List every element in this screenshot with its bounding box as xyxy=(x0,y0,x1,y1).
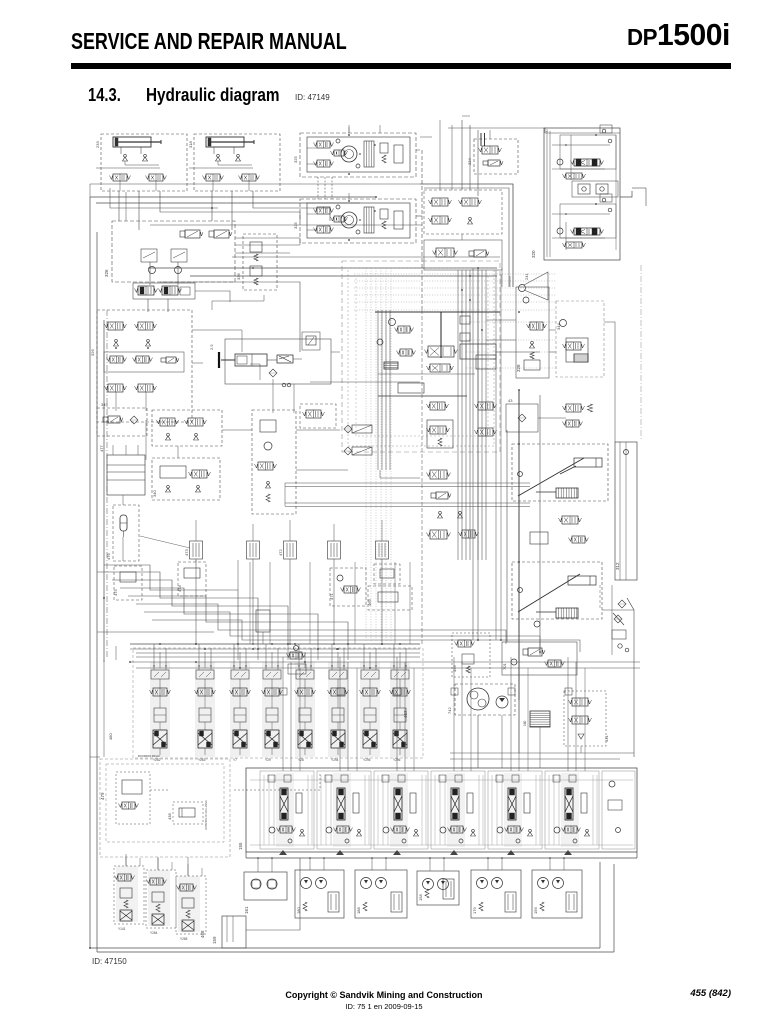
svg-text:479: 479 xyxy=(100,792,105,800)
svg-text:241: 241 xyxy=(524,273,529,280)
svg-text:43: 43 xyxy=(508,398,513,403)
wire junction solid rails xyxy=(377,310,379,470)
water coupling 469 xyxy=(368,586,412,610)
wire long center verticals xyxy=(299,330,301,352)
svg-text:349: 349 xyxy=(101,402,108,407)
manifold module x431 xyxy=(431,771,485,849)
jack valves 468 xyxy=(116,866,138,922)
small hatched cylinders 347 xyxy=(352,425,372,433)
wire extra vertical drops to bus xyxy=(249,562,251,644)
wire heavy L-routes into column xyxy=(420,184,513,287)
rock drill box 1 (dashed) xyxy=(512,444,608,501)
svg-text:Y295: Y295 xyxy=(363,758,371,762)
cartridge valve Y262 xyxy=(150,662,170,757)
relief valves 336 xyxy=(243,234,277,290)
percussion relief valves top xyxy=(566,404,581,412)
gauge box 161 xyxy=(244,872,287,900)
valve block 326 (oscillation) xyxy=(112,221,235,282)
svg-text:336: 336 xyxy=(236,273,241,280)
wire bus horizontals xyxy=(130,643,420,645)
wire 320 outlet arrow xyxy=(620,191,632,197)
gauge block 471 xyxy=(330,568,366,606)
wire right return risers xyxy=(599,862,601,948)
pump box 188 xyxy=(355,870,407,918)
water pump module 340 xyxy=(152,458,220,500)
Y7 extra cluster xyxy=(294,646,299,651)
svg-text:Y294: Y294 xyxy=(331,758,339,762)
wire percussion links xyxy=(538,417,566,419)
cartridge valve Y294 xyxy=(328,662,348,757)
svg-text:325: 325 xyxy=(293,156,298,163)
option box 480/479 (front jack) xyxy=(100,759,230,857)
main control valve 346 xyxy=(428,346,454,357)
svg-text:161: 161 xyxy=(244,906,249,914)
cartridge valve Y263 xyxy=(195,662,215,757)
valve block 320 (rod handling) xyxy=(544,128,620,260)
wire tramming brake lines xyxy=(317,177,319,199)
wire 326 exits xyxy=(195,291,230,302)
svg-text:155: 155 xyxy=(238,842,243,850)
dotted rails to 344 zone xyxy=(466,321,556,323)
svg-text:188: 188 xyxy=(356,907,361,914)
wire tank 159 link xyxy=(246,858,300,930)
svg-text:Y29: Y29 xyxy=(265,758,271,762)
section heading xyxy=(88,85,121,106)
svg-text:318: 318 xyxy=(188,141,193,148)
svg-text:Y7: Y7 xyxy=(233,758,237,762)
manifold module x545 xyxy=(545,771,599,849)
manifold module x374 xyxy=(374,771,428,849)
svg-text:Y141: Y141 xyxy=(118,927,126,931)
svg-text:179: 179 xyxy=(472,907,477,914)
manifold module x488 xyxy=(488,771,542,849)
svg-text:742: 742 xyxy=(447,707,452,714)
footer copyright xyxy=(0,990,768,1000)
svg-text:468: 468 xyxy=(200,930,205,938)
wire lower-left links xyxy=(103,660,105,757)
pump box 158 xyxy=(417,871,459,905)
wire bottom tank return lines xyxy=(90,947,600,949)
wire right bundle to 651 xyxy=(602,610,634,757)
air oiler block 328 xyxy=(516,287,549,378)
manifold module x317 xyxy=(317,771,371,849)
junction valve block right xyxy=(427,420,453,448)
svg-text:2: 2 xyxy=(546,129,548,133)
oil tank 159 xyxy=(222,916,246,948)
main percussion rails xyxy=(518,390,520,700)
svg-text:2.5: 2.5 xyxy=(209,344,214,350)
wire pump box feeds xyxy=(257,858,259,872)
percussion valves mid xyxy=(562,516,578,524)
suction hose 474 xyxy=(178,562,206,596)
hose reel 475 xyxy=(114,566,142,600)
oscillation dual valve 327 xyxy=(133,283,195,299)
svg-text:325: 325 xyxy=(293,222,298,229)
pump box 156 xyxy=(532,870,582,918)
quick couplings 473 xyxy=(190,541,203,559)
wire mid interconnect bundle xyxy=(104,565,238,644)
cartridge valve Y295 xyxy=(360,662,380,757)
valve cluster left manifold xyxy=(97,310,192,422)
page number xyxy=(690,988,731,999)
valve block 334 (winch) xyxy=(474,139,518,174)
valve 2.7 for cylinder xyxy=(277,355,293,363)
relief valve box 2.6 xyxy=(302,332,320,350)
cylinder group 233 (feed left) xyxy=(101,134,187,191)
cylinder 2.5 (shank piston) xyxy=(218,352,220,368)
manifold module x260 xyxy=(260,771,314,849)
svg-text:180: 180 xyxy=(296,907,301,914)
junction dots xyxy=(237,643,239,645)
svg-text:473: 473 xyxy=(184,549,189,556)
svg-text:Y264: Y264 xyxy=(150,931,158,935)
cartridge valve Y29 xyxy=(262,662,282,757)
cartridge valve Y28 xyxy=(295,662,315,757)
cylinder 2.5 frame box xyxy=(225,339,331,384)
svg-text:701: 701 xyxy=(502,663,507,670)
quick couplings 472 xyxy=(284,541,297,559)
svg-text:471: 471 xyxy=(329,593,334,600)
valve row below 346 xyxy=(384,362,398,369)
wire coupling tails up xyxy=(195,520,197,533)
product logo DP1500i xyxy=(627,17,730,53)
svg-text:Y263: Y263 xyxy=(198,758,206,762)
rollover option box 438 xyxy=(173,802,203,824)
wire misc xyxy=(421,310,423,644)
air/water module 332 xyxy=(152,410,222,446)
rotation pump 742 xyxy=(455,684,515,715)
distribution manifold 155 xyxy=(246,768,637,852)
svg-text:344: 344 xyxy=(556,323,561,330)
svg-text:ROTATION OF ROLLOVER: ROTATION OF ROLLOVER xyxy=(205,800,208,830)
wire left vertical supply pair xyxy=(89,197,91,948)
wire manifold hanging feeds xyxy=(282,657,284,771)
wire coupling drops xyxy=(195,559,197,644)
wire double rails mid xyxy=(285,482,530,484)
svg-text:156: 156 xyxy=(533,907,538,914)
pump box 179 xyxy=(471,870,521,918)
diamond + gauges under 2.5 xyxy=(269,369,277,377)
wire mid-left interconnect xyxy=(148,267,497,269)
svg-text:438: 438 xyxy=(167,813,172,820)
flushing cluster 329 xyxy=(452,633,490,677)
svg-text:472: 472 xyxy=(278,549,283,556)
wire upper extra routing xyxy=(96,167,160,169)
oil return collector 160 xyxy=(530,711,550,727)
svg-text:Y28: Y28 xyxy=(298,758,304,762)
svg-text:475: 475 xyxy=(113,589,118,596)
grease pointer 241 xyxy=(519,285,526,292)
svg-text:326: 326 xyxy=(104,269,109,277)
junction small components xyxy=(389,319,396,326)
wire top-left routing web xyxy=(90,196,376,198)
svg-text:326: 326 xyxy=(90,349,95,356)
wire option links xyxy=(150,789,168,791)
valve box 349 xyxy=(97,408,147,436)
manifold end section xyxy=(602,771,635,849)
cluster vertical rails xyxy=(457,270,459,560)
svg-text:328: 328 xyxy=(516,364,521,372)
filter cooler column cluster xyxy=(424,190,502,234)
svg-text:331: 331 xyxy=(604,735,609,742)
wire manifold long rails xyxy=(130,661,640,663)
svg-text:480: 480 xyxy=(108,733,113,740)
svg-text:477: 477 xyxy=(99,445,104,452)
header title xyxy=(71,28,347,55)
compressor valve 331 xyxy=(564,691,606,746)
oil tank unit 701 xyxy=(502,642,577,675)
breather 601 xyxy=(256,610,270,632)
svg-text:340: 340 xyxy=(152,490,157,497)
svg-text:233: 233 xyxy=(95,141,100,148)
svg-text:334: 334 xyxy=(467,158,472,165)
svg-text:159: 159 xyxy=(212,936,217,944)
junction manifold zone (dashed) xyxy=(342,261,500,452)
wire tramming right riser xyxy=(416,150,422,310)
svg-text:320: 320 xyxy=(531,250,536,258)
diagram id xyxy=(92,957,127,966)
coupling 470 xyxy=(374,564,400,584)
svg-text:329: 329 xyxy=(452,665,457,672)
wire inner left riser xyxy=(103,320,105,662)
svg-text:469: 469 xyxy=(367,599,372,606)
svg-text:467: 467 xyxy=(403,710,408,718)
wire top risers xyxy=(348,125,350,133)
wire pump drops xyxy=(477,715,479,768)
wire bottom-left risers xyxy=(125,857,127,866)
pump box 180 xyxy=(295,870,344,918)
tramming motor block 325 right xyxy=(300,133,416,177)
oil heater 312 xyxy=(615,442,637,580)
svg-text:160: 160 xyxy=(523,720,527,726)
tramming motor block 325 left xyxy=(300,199,416,243)
svg-text:Y265: Y265 xyxy=(180,937,188,941)
boom manifold dashed frame xyxy=(133,648,423,758)
column risers top xyxy=(461,120,463,190)
percussion feed diamond 43 xyxy=(506,404,538,432)
svg-text:312: 312 xyxy=(615,562,620,570)
svg-text:158: 158 xyxy=(418,894,423,901)
right edge valves 648-651 xyxy=(618,600,626,608)
junction lower box xyxy=(398,383,424,393)
svg-text:474: 474 xyxy=(177,585,182,592)
air compressor feed 242 xyxy=(300,404,336,428)
left dash-dot boundary xyxy=(106,310,108,658)
wire 320 top feeds xyxy=(448,128,545,133)
cartridge valve Y296 xyxy=(390,662,410,757)
shank lubrication device column xyxy=(252,410,296,514)
cartridge valve Y7 xyxy=(230,662,250,757)
rock drill box 2 (dashed) xyxy=(512,562,602,619)
rod changer option 344 (dashed) xyxy=(556,301,604,377)
cylinder group 318 (feed right) xyxy=(194,134,280,191)
header rule xyxy=(71,63,731,69)
svg-text:Y262: Y262 xyxy=(153,758,161,762)
